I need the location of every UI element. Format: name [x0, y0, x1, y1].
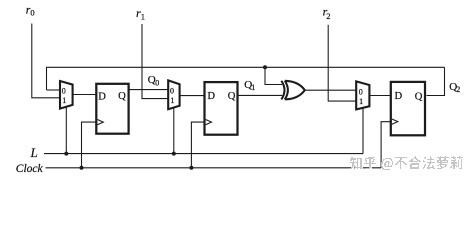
- wire r0 vertical into mux U1 input 1: [32, 24, 60, 98]
- wire mux U3 output to FF3 D: [369, 95, 390, 97]
- svg-text:0: 0: [30, 8, 34, 18]
- svg-text:1: 1: [170, 96, 174, 105]
- svg-text:Q: Q: [415, 91, 423, 102]
- label r0: [26, 2, 35, 17]
- junction FF1 clock on Clock: [80, 166, 84, 170]
- wire XOR G1 output to mux U3 input 0: [305, 89, 356, 91]
- svg-text:0: 0: [62, 87, 66, 96]
- wire mux U1 output to FF1 D: [73, 94, 96, 96]
- junction node A on feedback wire: [263, 65, 267, 69]
- label Q2: [449, 81, 460, 94]
- svg-text:Q: Q: [118, 91, 126, 102]
- svg-text:0: 0: [155, 79, 159, 88]
- svg-text:D: D: [207, 91, 215, 102]
- svg-text:D: D: [395, 91, 403, 102]
- watermark zhihu: [350, 157, 464, 171]
- svg-text:1: 1: [251, 83, 255, 92]
- wire r2 vertical into mux U3 input 1: [328, 25, 356, 101]
- label r1: [136, 6, 145, 21]
- multiplexer U1: [60, 81, 73, 109]
- junction mux U2 select on L: [172, 152, 176, 156]
- wire mux U3 select to L: [362, 108, 364, 154]
- flip-flop FF2: [205, 82, 238, 135]
- wire branch from node A down to XOR G1 input: [265, 67, 282, 84]
- svg-text:1: 1: [359, 97, 363, 106]
- junction FF2 clock on Clock: [189, 166, 193, 170]
- wire Q1 from FF2 to XOR G1 input: [238, 94, 282, 96]
- wire Clock bus: [46, 167, 382, 169]
- multiplexer U3: [356, 81, 369, 109]
- svg-text:1: 1: [141, 11, 145, 21]
- wire Q2 output right side: [427, 67, 445, 95]
- junction mux U1 select on L: [64, 152, 68, 156]
- svg-text:Q: Q: [228, 91, 236, 102]
- label r2: [323, 4, 331, 21]
- wire feedback top (Q2 to stage inputs): [47, 67, 445, 90]
- label Q0: [148, 74, 160, 88]
- wire r1 vertical into mux U2 input 1: [142, 24, 168, 99]
- wire Q0 from FF1 to mux U2 input 0: [129, 89, 169, 91]
- wire clock riser to FF3: [381, 122, 391, 168]
- svg-text:1: 1: [62, 96, 66, 105]
- svg-text:0: 0: [359, 87, 363, 96]
- flip-flop FF1: [96, 84, 128, 134]
- wire mux U2 select to L: [173, 108, 175, 154]
- wire clock riser to FF1: [82, 122, 97, 168]
- wire feedback into mux U1 input 0: [47, 89, 60, 91]
- label Q1: [244, 79, 255, 92]
- wire mux U2 output to FF2 D: [180, 95, 205, 97]
- wire mux U1 select to L: [65, 107, 67, 154]
- svg-text:L: L: [30, 145, 38, 160]
- svg-text:Clock: Clock: [16, 163, 44, 175]
- svg-text:0: 0: [170, 86, 174, 95]
- svg-text:2: 2: [326, 11, 330, 21]
- wire L bus: [44, 153, 363, 155]
- xor gate G1: [281, 81, 304, 100]
- svg-text:D: D: [98, 91, 106, 102]
- wire clock riser to FF2: [191, 122, 204, 168]
- multiplexer U2: [168, 80, 179, 109]
- svg-text:2: 2: [456, 85, 460, 94]
- flip-flop FF3: [391, 82, 425, 135]
